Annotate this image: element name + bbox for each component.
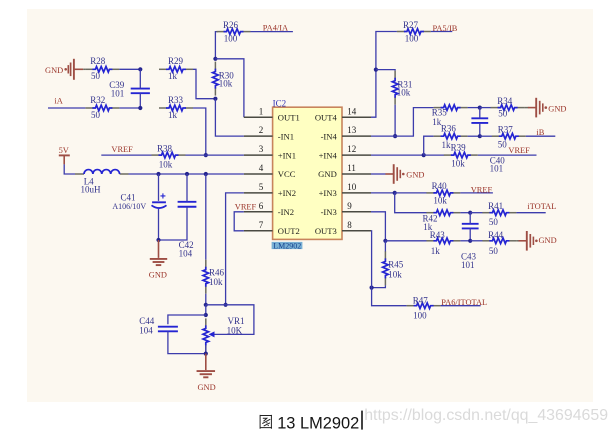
node B4 junction (422, 153, 426, 157)
wire R34 to GND (525, 107, 529, 109)
node V3 junction (224, 303, 228, 307)
node V1 junction (204, 303, 208, 307)
svg-text:R40: R40 (432, 181, 448, 191)
label L4 10uH (81, 177, 102, 195)
wire node B2 to R35 (395, 108, 434, 137)
node P3 junction (204, 172, 208, 176)
wire R33 to +IN1 (193, 108, 206, 155)
wire OUT4 riser (371, 32, 397, 118)
svg-text:7: 7 (259, 220, 264, 230)
wire R46 to node V1 (205, 294, 207, 305)
capacitor C40 (471, 118, 488, 123)
wire C42 bottom lead (159, 207, 188, 240)
svg-text:OUT3: OUT3 (315, 226, 337, 236)
svg-text:R28: R28 (90, 56, 106, 66)
resistor R27 (397, 29, 431, 35)
IC2 pin labels and numbers (259, 106, 357, 236)
label R33 1k (168, 95, 184, 120)
label R43 1k (430, 230, 446, 256)
node B5 junction (478, 134, 482, 138)
svg-text:50: 50 (498, 109, 508, 119)
svg-text:50: 50 (498, 140, 508, 150)
svg-text:R36: R36 (441, 123, 457, 133)
svg-text:11: 11 (347, 163, 356, 173)
resistor R44 (482, 238, 516, 244)
power ground symbol GND (left of R28) (45, 59, 83, 80)
svg-text:8: 8 (347, 220, 352, 230)
label R42 1k (423, 213, 438, 232)
node A1 junction (138, 67, 142, 71)
wire node C1 to R40 (395, 192, 427, 194)
label R39 10k (451, 143, 467, 169)
node A5 junction (204, 153, 208, 157)
resistor R41 (482, 210, 516, 216)
svg-text:50: 50 (91, 110, 101, 120)
label R37 50 (498, 125, 514, 150)
label R32 50 (90, 95, 105, 120)
label R41 50 (488, 201, 503, 227)
wire node A4 to -IN1 (215, 99, 244, 136)
svg-text:R37: R37 (498, 125, 514, 135)
svg-text:-IN3: -IN3 (321, 207, 337, 217)
capacitor C42 (178, 202, 197, 207)
resistor R39 (444, 152, 478, 158)
wire C43 bottom (469, 228, 471, 240)
label R47 100 (413, 295, 429, 320)
svg-text:R27: R27 (403, 20, 419, 30)
resistor R37 (492, 133, 526, 139)
label R44 50 (488, 230, 504, 256)
svg-text:iTOTAL: iTOTAL (527, 202, 556, 211)
wire GND to R28 (83, 68, 85, 70)
svg-text:6: 6 (259, 201, 264, 211)
power ground symbol GND (pin 11) (385, 164, 424, 184)
svg-text:PA5/IB: PA5/IB (433, 24, 458, 33)
svg-text:-IN2: -IN2 (278, 207, 294, 217)
svg-text:LM2902: LM2902 (273, 241, 301, 250)
wire GND pin 11 (371, 173, 386, 175)
svg-text:1k: 1k (442, 140, 452, 150)
svg-text:GND: GND (318, 169, 337, 179)
wire R29 to R30 bottom node (193, 69, 215, 98)
label VR1 10K (227, 316, 245, 335)
wire R44 to GND (516, 240, 519, 242)
svg-text:104: 104 (179, 248, 193, 258)
label R35 1k (432, 108, 448, 127)
wire VCC rail (129, 173, 244, 175)
svg-text:13 LM2902: 13 LM2902 (277, 414, 359, 432)
svg-text:12: 12 (347, 144, 356, 154)
wire C41 bottom lead (158, 209, 160, 240)
wire -IN2 to OUT2 feedback (234, 212, 244, 231)
label R27 100 (403, 20, 419, 44)
svg-text:-IN4: -IN4 (321, 131, 338, 141)
power port 5V (59, 146, 70, 164)
svg-text:104: 104 (139, 326, 153, 336)
label R46 10k (209, 267, 225, 287)
label C42 104 (179, 240, 194, 259)
IC2 pin stubs (244, 117, 371, 231)
svg-text:50: 50 (489, 217, 499, 227)
resistor R38 (152, 152, 186, 158)
svg-text:1k: 1k (431, 246, 441, 256)
svg-text:IC2: IC2 (273, 98, 287, 108)
label R38 10k (157, 143, 173, 169)
resistor R32 (85, 105, 119, 111)
node V4 junction (204, 352, 208, 356)
capacitor C39 (131, 89, 150, 94)
capacitor C43 (462, 224, 479, 229)
wire node B4 to R39 (424, 154, 445, 156)
wire C40 top (479, 108, 481, 119)
svg-text:GND: GND (548, 105, 566, 114)
node P4 junction (156, 238, 160, 242)
svg-text:R26: R26 (223, 20, 239, 30)
resistor R26 (217, 29, 251, 35)
resistor R35 (434, 105, 468, 111)
svg-text:R29: R29 (168, 56, 184, 66)
wire R39 to VREF (478, 154, 537, 156)
wire R40 to VREF (460, 192, 493, 194)
wire R47 to PA6/ITOTAL (441, 305, 481, 307)
power ground symbol GND (after R44) (519, 231, 557, 251)
ground symbol (below C41) (149, 240, 167, 279)
node C5 junction (370, 286, 374, 290)
svg-text:R33: R33 (168, 95, 184, 105)
resistor R30 (213, 62, 219, 96)
label R26 100 (223, 20, 239, 44)
label LM2902 highlighted (272, 241, 303, 250)
label R31 10k (397, 79, 413, 97)
svg-text:R47: R47 (413, 295, 429, 305)
svg-text:R45: R45 (388, 260, 404, 270)
svg-text:100: 100 (413, 311, 427, 321)
svg-text:+IN1: +IN1 (278, 150, 296, 160)
wire R32 to node A2 (119, 107, 140, 109)
wire R28 to node A1 (119, 68, 140, 70)
label R34 50 (497, 96, 513, 119)
svg-text:R44: R44 (488, 230, 504, 240)
wire R43 to node C4 (460, 240, 470, 242)
svg-text:+IN2: +IN2 (278, 188, 296, 198)
svg-text:2: 2 (259, 125, 264, 135)
wire node B4 up to R36 (424, 136, 434, 155)
node C2 junction (468, 211, 472, 215)
svg-text:3: 3 (259, 144, 264, 154)
node P2 junction (185, 172, 189, 176)
power ground symbol GND (after R34) (528, 98, 567, 118)
resistor R36 (434, 133, 468, 139)
svg-text:100: 100 (224, 34, 238, 44)
svg-text:100: 100 (405, 33, 419, 43)
svg-text:R38: R38 (157, 143, 173, 153)
wire node B5 to R37 (480, 135, 492, 137)
svg-text:50: 50 (489, 246, 499, 256)
wire R37 to iB (526, 135, 556, 137)
svg-text:101: 101 (111, 89, 125, 99)
wire node C2 to R41 (470, 212, 483, 214)
wire +IN3 pin (371, 192, 395, 194)
label R45 10k (388, 260, 404, 280)
resistor R31 (392, 71, 398, 105)
svg-text:VREF: VREF (111, 145, 133, 154)
wire +IN2 riser (226, 193, 244, 305)
capacitor C44 (158, 327, 178, 332)
svg-text:101: 101 (490, 163, 504, 173)
wire C40 bottom (479, 123, 481, 136)
wire OUT3 down (371, 231, 407, 306)
inductor L4 (75, 170, 129, 174)
svg-text:10k: 10k (219, 78, 233, 88)
svg-text:R41: R41 (488, 201, 503, 211)
svg-text:GND: GND (539, 236, 557, 245)
node C1 junction (393, 191, 397, 195)
wire VCC to R46 (205, 174, 207, 260)
label R30 10k (219, 70, 235, 88)
svg-text:OUT1: OUT1 (278, 112, 300, 122)
svg-text:10K: 10K (227, 326, 243, 336)
svg-text:13: 13 (347, 125, 357, 135)
svg-text:1: 1 (259, 106, 264, 116)
op-amp IC2 body (273, 107, 342, 239)
svg-text:R39: R39 (451, 143, 467, 153)
label R28 50 (90, 56, 106, 81)
wire node B3 to R34 (480, 107, 491, 109)
wire C39 bottom (139, 93, 141, 108)
wire 5V to L4 (64, 164, 75, 174)
wire R26 to PA4/IA (251, 31, 293, 33)
potentiometer VR1 (203, 318, 215, 352)
svg-text:GND: GND (406, 170, 424, 179)
svg-text:10uH: 10uH (81, 184, 102, 194)
svg-text:50: 50 (91, 71, 101, 81)
label R40 10k (432, 181, 448, 205)
wire OUT1 node up (215, 32, 218, 59)
wire R45 bottom to OUT3 net (372, 285, 386, 287)
wire node C3 to R43 (385, 240, 426, 242)
label R36 1k (441, 123, 457, 150)
wire -IN3 pin down (371, 212, 385, 241)
wire R41 to iTOTAL (516, 212, 545, 214)
node V2 junction (204, 313, 208, 317)
wire R31 to -IN4 node (394, 105, 396, 136)
capacitor C41 polarized (152, 192, 167, 208)
svg-text:iB: iB (536, 128, 544, 137)
svg-text:A106/10V: A106/10V (112, 202, 146, 211)
resistor R43 (426, 238, 460, 244)
wire node C4 to R44 (470, 240, 483, 242)
resistor R34 (491, 105, 525, 111)
wire iA (48, 107, 85, 109)
node A3 junction (213, 57, 217, 61)
svg-text:OUT4: OUT4 (315, 112, 338, 122)
svg-text:+IN3: +IN3 (319, 188, 337, 198)
resistor R40 (426, 190, 460, 196)
label C44 104 (139, 316, 155, 335)
wire C44 bottom (168, 331, 206, 353)
svg-text:VREF: VREF (508, 146, 530, 155)
svg-text:10k: 10k (397, 87, 411, 97)
caption figure 13 LM2902 (0, 400, 614, 435)
svg-text:GND: GND (149, 270, 167, 279)
svg-text:iA: iA (54, 96, 62, 105)
wire R42 to node C2 (460, 212, 470, 214)
ground symbol (below VR1) (197, 354, 216, 393)
resistor R42 (426, 210, 460, 216)
label C39 101 (109, 80, 125, 99)
svg-text:10k: 10k (388, 269, 402, 279)
wire C41 top lead (158, 174, 160, 201)
node C4 junction (468, 239, 472, 243)
resistor R47 (407, 303, 441, 309)
svg-text:+: + (160, 192, 166, 203)
wire VR1 wiper loop (206, 305, 254, 335)
resistor R33 (159, 105, 193, 111)
wire C42 top lead (186, 174, 188, 202)
node B3 junction (478, 106, 482, 110)
svg-text:10k: 10k (209, 277, 223, 287)
svg-text:R43: R43 (430, 230, 446, 240)
svg-text:1k: 1k (168, 110, 178, 120)
label R29 1k (168, 56, 184, 81)
svg-text:VREF: VREF (235, 202, 257, 211)
svg-text:PA4/IA: PA4/IA (263, 24, 288, 33)
node C3 junction (383, 239, 387, 243)
svg-text:VREF: VREF (471, 186, 493, 195)
wire R35 to node B3 (468, 107, 480, 109)
wire VR1 bottom (205, 345, 207, 353)
svg-text:10: 10 (347, 182, 357, 192)
wire node C3 to R45 (384, 241, 386, 252)
svg-text:R46: R46 (209, 267, 225, 277)
svg-text:GND: GND (198, 383, 216, 392)
label C41 A106/10V (112, 192, 146, 210)
svg-text:5V: 5V (59, 146, 69, 155)
svg-text:5: 5 (259, 182, 264, 192)
node P1 junction (156, 172, 160, 176)
svg-text:+IN4: +IN4 (319, 150, 338, 160)
svg-text:-IN1: -IN1 (278, 131, 294, 141)
wire -IN4 pin to node B2 (371, 135, 395, 137)
svg-text:9: 9 (347, 201, 352, 211)
svg-text:10k: 10k (159, 160, 173, 170)
wire +IN4 pin (371, 154, 424, 156)
wire C43 top (469, 213, 471, 224)
resistor R28 (85, 67, 119, 73)
node B1 junction (374, 68, 378, 72)
svg-text:R34: R34 (497, 96, 513, 106)
svg-text:101: 101 (461, 260, 475, 270)
wire R36 to node B5 (468, 135, 480, 137)
wire node V1 to V2 (205, 305, 207, 315)
svg-text:1k: 1k (168, 71, 178, 81)
wire node B1 to R31 (376, 70, 395, 71)
label C40 101 (490, 155, 506, 173)
svg-text:OUT2: OUT2 (278, 226, 300, 236)
svg-text:10k: 10k (451, 158, 465, 168)
node B2 junction (393, 134, 397, 138)
resistor R45 (383, 251, 389, 285)
label C43 101 (461, 251, 477, 270)
wire C39 top (139, 69, 141, 88)
svg-text:14: 14 (347, 106, 357, 116)
svg-text:GND: GND (45, 66, 63, 75)
svg-text:VCC: VCC (278, 169, 296, 179)
wire C44 top (168, 315, 206, 324)
wire node A3 to OUT1 (215, 59, 244, 117)
svg-text:R32: R32 (90, 95, 105, 105)
svg-text:PA6/ITOTAL: PA6/ITOTAL (441, 298, 487, 307)
svg-text:10k: 10k (433, 195, 447, 205)
resistor R29 (159, 67, 193, 73)
svg-text:4: 4 (259, 163, 264, 173)
resistor R46 (203, 260, 209, 294)
wire VREF to R38 (101, 154, 151, 156)
node A4 junction (213, 97, 217, 101)
wire R27 to PA5/IB (431, 31, 452, 33)
svg-text:https://blog.csdn.net/qq_43694: https://blog.csdn.net/qq_43694659 (364, 407, 608, 424)
node A2 junction (138, 106, 142, 110)
wire R38 to +IN1 pin (186, 154, 244, 156)
wire node C1 down to R42 (395, 193, 427, 213)
